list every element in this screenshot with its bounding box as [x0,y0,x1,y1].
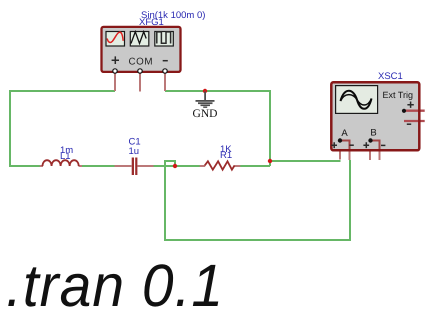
svg-text:B: B [370,128,376,139]
svg-text:1u: 1u [129,146,140,157]
svg-text:GND: GND [193,108,218,120]
svg-text:R1: R1 [220,150,232,161]
svg-text:.tran 0.1: .tran 0.1 [6,252,224,319]
svg-text:COM: COM [128,56,153,67]
svg-text:A: A [341,128,348,139]
svg-text:L1: L1 [60,151,71,162]
svg-text:XSC1: XSC1 [378,71,403,82]
svg-text:Ext Trig: Ext Trig [383,90,414,100]
svg-text:XFG1: XFG1 [139,17,164,28]
